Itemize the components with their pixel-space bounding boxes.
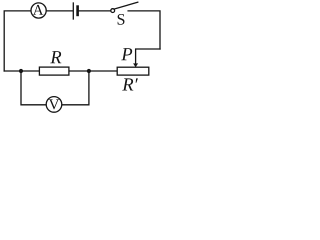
resistor R body (39, 67, 69, 75)
switch S pivot (111, 9, 115, 13)
label R' (rheostat) (122, 78, 138, 90)
wiper arrowhead (133, 63, 138, 67)
label A (ammeter) (33, 5, 44, 15)
label V (voltmeter) (49, 99, 59, 109)
junction node right (87, 69, 91, 73)
battery cell long plate (72, 3, 74, 19)
wire jog to wiper arrow (136, 49, 160, 64)
wire middle left (to resistor R) (4, 70, 39, 72)
wire battery to switch (79, 10, 111, 12)
label P (wiper) (121, 48, 132, 60)
wire switch to top-right corner and down right side (128, 11, 160, 49)
wire left side (top-left corner down to middle wire) (4, 11, 30, 71)
ammeter A1 (31, 3, 46, 18)
wire resistor R to rheostat R' (69, 70, 117, 72)
battery cell short plate (76, 7, 79, 15)
wire ammeter to battery (46, 10, 72, 12)
switch S blade (114, 2, 137, 9)
label R (resistor) (50, 51, 61, 63)
voltmeter V1 (46, 97, 62, 113)
label S (switch) (118, 14, 125, 25)
rheostat R' body (117, 67, 149, 75)
wire voltmeter branch right (62, 71, 89, 105)
junction node left (19, 69, 23, 73)
wire voltmeter branch left (21, 71, 46, 105)
